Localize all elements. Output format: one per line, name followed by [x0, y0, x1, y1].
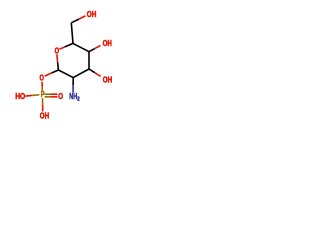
svg-text:P: P	[41, 90, 45, 99]
svg-text:OH: OH	[103, 39, 112, 48]
svg-text:2: 2	[77, 97, 79, 103]
svg-text:O: O	[40, 74, 44, 83]
svg-text:O: O	[58, 92, 63, 101]
svg-text:OH: OH	[40, 112, 49, 121]
svg-text:OH: OH	[103, 75, 113, 84]
svg-text:OH: OH	[87, 10, 97, 19]
svg-text:HO: HO	[15, 92, 25, 101]
svg-text:O: O	[55, 46, 59, 55]
svg-text:NH: NH	[69, 92, 77, 101]
